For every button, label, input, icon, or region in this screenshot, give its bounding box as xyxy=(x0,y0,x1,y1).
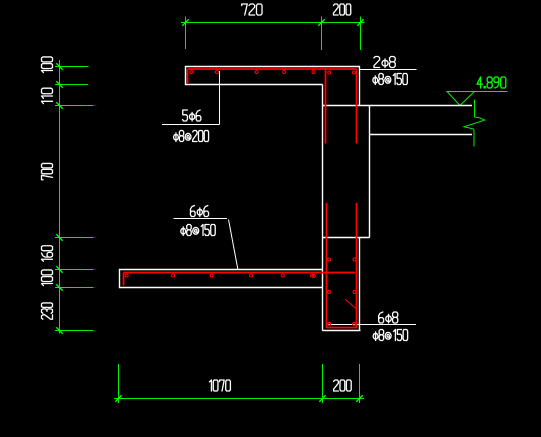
rebar dots: wall horizontal bars row 1 xyxy=(328,258,357,261)
concrete outline: top slab xyxy=(186,67,361,85)
bottom slab outline xyxy=(120,270,323,288)
rebar dots: wall bottom hooks xyxy=(328,322,356,325)
rebar dots: wall horizontal bars row 2 xyxy=(328,291,357,294)
construction joint line xyxy=(323,237,370,239)
rebar dots: dowel hooks xyxy=(328,71,356,74)
elevation text 4.890 xyxy=(477,77,506,88)
bottom dimension line xyxy=(114,398,364,400)
label text 6phi8 xyxy=(379,312,398,323)
dimtext 100 top xyxy=(42,57,53,73)
left dim tick line y=105.5 xyxy=(55,105,94,107)
left dim tick line y=84.5 xyxy=(55,84,88,86)
label 5phi6 leader vertical xyxy=(219,71,221,125)
top dim extension line right x=360.5 xyxy=(360,17,362,51)
rebar: wall dowel bar left xyxy=(325,69,327,144)
wall outer face step xyxy=(369,106,371,238)
label text phi8@200 xyxy=(174,131,209,142)
rebar: bottom slab left hook xyxy=(123,273,125,286)
label text phi8@150 middle xyxy=(181,225,215,236)
top dim tick 2 xyxy=(318,19,324,25)
label text phi8@150 bottom right xyxy=(373,330,407,341)
wall left face xyxy=(322,85,324,331)
dimtext 1070 xyxy=(209,380,230,391)
dimtext 100 lower xyxy=(42,270,53,286)
top dim extension line left x=185.5 xyxy=(185,17,187,50)
bottom dim tick 2 xyxy=(319,395,325,401)
label 6phi6 slanted leader xyxy=(229,220,239,271)
rebar: lower wall bar right xyxy=(356,203,358,328)
left dim tick line y=269.5 xyxy=(55,269,94,271)
bottom dim extension line mid x=322.5 xyxy=(322,364,324,403)
rebar: wall bottom bar xyxy=(327,327,357,329)
red leader diagonal (6phi8) xyxy=(345,299,357,309)
rebar dots: bottom slab distribution bars xyxy=(125,274,314,277)
bottom dim tick 1 xyxy=(115,395,121,401)
left dimension line vertical xyxy=(59,60,61,334)
rebar: top slab left hook xyxy=(187,69,189,84)
label text 6phi6 xyxy=(190,206,208,217)
left dim tick line y=66.5 xyxy=(55,66,89,68)
label text phi8@150 top right xyxy=(373,74,407,85)
bottom dim tick 3 xyxy=(356,395,362,401)
dimtext 700 xyxy=(42,163,53,179)
label text 5phi6 xyxy=(183,110,201,121)
bottom dim extension line left x=118.5 xyxy=(118,364,120,403)
rebar: wall dowel bar right xyxy=(356,69,358,144)
left dim slash ticks xyxy=(56,63,62,333)
wall right face lower xyxy=(359,238,361,331)
bottom dim extension line right x=359.5 xyxy=(359,364,361,403)
rebar: lower wall bar left xyxy=(326,203,328,328)
top dim tick 3 xyxy=(357,19,363,25)
label 5phi6 underline xyxy=(162,124,220,126)
dimtext 200 top xyxy=(333,4,350,15)
elevation marker triangle xyxy=(447,92,475,106)
wall bottom edge xyxy=(323,330,361,332)
rebar dot: bottom slab bar at wall xyxy=(312,275,315,278)
left dim tick line y=287.5 xyxy=(55,287,94,289)
label 2phi8 underline xyxy=(360,69,417,71)
dimtext 200 bottom xyxy=(334,380,352,391)
break line zigzag xyxy=(464,100,485,147)
rebar: bottom slab main bar xyxy=(124,272,356,274)
rebar: top slab main bar xyxy=(188,68,357,70)
top dim extension line mid x=321.5 xyxy=(321,17,323,51)
dimtext 110 xyxy=(42,88,53,103)
top dimension line xyxy=(181,22,365,24)
left dim tick line y=330.5 xyxy=(55,330,94,332)
elevation marker line xyxy=(447,91,508,93)
rebar dots: top slab distribution bars xyxy=(190,71,315,74)
dimtext 160 xyxy=(42,246,53,262)
label 6phi8 underline xyxy=(329,324,417,326)
dimtext 720 xyxy=(242,4,262,15)
left dim tick line y=237.5 xyxy=(55,237,94,239)
floor slab top edge xyxy=(323,105,473,107)
label 6phi6 underline xyxy=(174,218,228,220)
label text 2phi8 xyxy=(374,57,395,68)
floor slab bottom edge xyxy=(370,134,473,136)
top dim tick 1 xyxy=(182,19,188,25)
dimtext 230 xyxy=(42,303,53,319)
wall right face upper xyxy=(359,67,361,106)
